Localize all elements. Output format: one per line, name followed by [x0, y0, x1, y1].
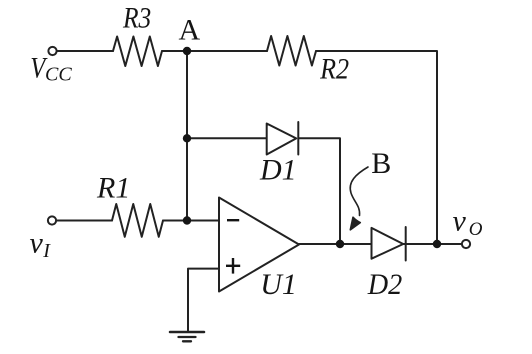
svg-text:D1: D1	[259, 154, 297, 187]
svg-text:R2: R2	[319, 53, 349, 86]
svg-text:v: v	[453, 205, 467, 238]
svg-text:I: I	[42, 240, 51, 262]
svg-text:R3: R3	[122, 2, 151, 35]
svg-text:A: A	[179, 14, 201, 47]
svg-text:v: v	[30, 226, 44, 259]
svg-text:R1: R1	[96, 172, 130, 205]
svg-text:D2: D2	[367, 268, 402, 301]
svg-text:B: B	[371, 147, 391, 180]
svg-text:CC: CC	[45, 64, 72, 86]
svg-text:U1: U1	[260, 268, 297, 301]
svg-text:O: O	[469, 219, 483, 240]
